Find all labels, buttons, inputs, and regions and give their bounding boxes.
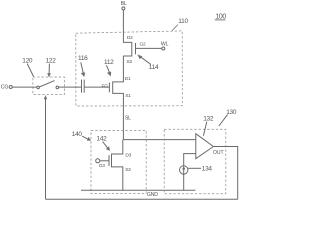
drain jog D1 xyxy=(113,82,124,94)
svg-text:SL: SL xyxy=(125,116,131,122)
wire SL to amplifier input xyxy=(123,139,195,141)
wire feedback bottom xyxy=(46,198,238,200)
gate bar G3 xyxy=(108,155,110,166)
svg-text:140: 140 xyxy=(72,131,83,138)
svg-text:116: 116 xyxy=(78,55,88,62)
svg-text:GND: GND xyxy=(147,192,158,198)
label 110 leader xyxy=(172,25,178,31)
svg-text:S1: S1 xyxy=(125,93,131,99)
switch box 120 dashed xyxy=(33,77,65,95)
current source 134 xyxy=(180,166,188,174)
gate wire to WL xyxy=(136,47,162,49)
label 122 arrow xyxy=(46,57,57,77)
dashed box 130 xyxy=(164,129,226,194)
capacitor 116 xyxy=(82,80,85,93)
node BL xyxy=(121,1,127,10)
wire junction to D3 xyxy=(122,140,124,154)
label 100 xyxy=(215,14,227,21)
wire S2 to D1 xyxy=(122,56,124,82)
label 140 arrow xyxy=(72,131,91,141)
svg-text:132: 132 xyxy=(203,116,214,123)
node CG xyxy=(1,84,12,90)
svg-text:112: 112 xyxy=(104,59,114,66)
gate bar FG xyxy=(108,83,110,93)
wire feedback left with arrow into switch box xyxy=(44,95,47,199)
transistor 112 xyxy=(84,82,124,94)
svg-text:BL: BL xyxy=(121,1,127,7)
op-amp 132 xyxy=(196,134,214,159)
label 132 leader xyxy=(203,122,206,136)
drain jog D2 xyxy=(123,42,132,56)
gate bar of 114 xyxy=(135,43,137,54)
wire inverting input xyxy=(184,154,196,166)
node WL xyxy=(161,42,169,51)
wire current source to ground xyxy=(183,174,185,190)
svg-text:130: 130 xyxy=(226,109,237,116)
wire op-amp output xyxy=(213,147,237,200)
wire capacitor to switch xyxy=(59,86,82,88)
svg-text:114: 114 xyxy=(149,64,159,71)
gate wire to capacitor xyxy=(84,86,109,88)
label 142 arrow xyxy=(97,135,111,151)
label 116 arrow xyxy=(78,55,88,77)
switch 122 xyxy=(37,81,59,89)
ground label GND xyxy=(146,191,158,198)
wire S1 down (SL) xyxy=(122,93,124,139)
svg-text:G2: G2 xyxy=(140,42,147,48)
gate terminal circle G3 xyxy=(96,159,100,163)
svg-text:110: 110 xyxy=(178,18,188,25)
transistor 114 xyxy=(123,42,162,56)
svg-text:142: 142 xyxy=(97,135,108,142)
label 112 arrow xyxy=(104,59,114,77)
wire CG to switch xyxy=(12,86,37,88)
label 120 leader xyxy=(27,64,33,77)
dashed box 110 xyxy=(76,31,183,106)
drain jog D3 xyxy=(112,154,124,167)
label 130 leader xyxy=(219,115,228,126)
label 114 arrow xyxy=(137,54,159,71)
gate wire G3 xyxy=(100,160,109,162)
label 134 leader xyxy=(188,167,201,169)
svg-text:122: 122 xyxy=(46,57,57,64)
dashed box 140 xyxy=(91,130,146,193)
svg-text:OUT: OUT xyxy=(213,150,224,156)
transistor 142 xyxy=(96,154,124,167)
svg-text:D3: D3 xyxy=(125,153,131,159)
svg-text:134: 134 xyxy=(202,165,213,172)
svg-text:S3: S3 xyxy=(125,167,131,173)
svg-text:CG: CG xyxy=(1,84,9,90)
svg-text:WL: WL xyxy=(161,42,169,48)
svg-text:120: 120 xyxy=(22,57,33,64)
svg-text:G3: G3 xyxy=(99,163,106,169)
wire BL to drain of 114 xyxy=(122,10,124,43)
svg-text:S2: S2 xyxy=(127,59,133,65)
svg-text:D2: D2 xyxy=(127,35,133,41)
svg-text:FG: FG xyxy=(102,84,109,90)
wire S3 to ground rail xyxy=(122,167,124,190)
svg-text:100: 100 xyxy=(215,14,226,21)
ground rail xyxy=(81,189,195,191)
svg-text:D1: D1 xyxy=(125,76,131,82)
